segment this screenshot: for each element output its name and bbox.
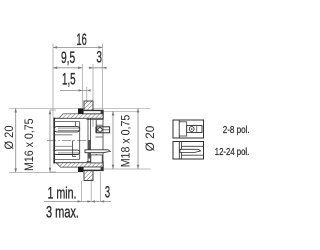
bottom dim line [44, 200, 111, 202]
svg-text:3: 3 [96, 48, 102, 67]
body right face upper [95, 119, 97, 127]
left dim line M16 x50 [49, 110, 51, 172]
insulator edge between pins [79, 122, 81, 160]
extension line x86.8 [86, 87, 88, 101]
icon 1 contact bar [187, 126, 202, 133]
panel nut bar bottom end cap [101, 167, 104, 171]
bore line top [54, 121, 80, 123]
bottom extension x100.3 [99, 172, 101, 201]
flat tab contact (lower right) [85, 150, 110, 153]
dim line 1,5 [60, 89, 87, 91]
panel nut bar bottom thick edge [83, 169, 103, 171]
right dim line O20 x138 [137, 108, 139, 169]
right extension line y169 [104, 168, 151, 170]
svg-text:16: 16 [76, 30, 86, 49]
svg-text:3 max.: 3 max. [46, 204, 79, 222]
O20 extension line bottom (long) [9, 172, 78, 174]
cavity line below pin1 [55, 134, 73, 136]
insulator edge lower [73, 141, 77, 157]
svg-text:1,5: 1,5 [62, 69, 76, 88]
icon 2 divider 1 [178, 142, 180, 160]
bore line bottom [54, 158, 80, 160]
svg-text:12-24 pol.: 12-24 pol. [215, 146, 250, 158]
insulator bar line 1 [87, 118, 89, 163]
insulator upper front edge [75, 122, 77, 127]
right dim line M18 x113 [112, 111, 114, 169]
panel nut bar top end cap [101, 110, 104, 114]
extension line x93 [92, 64, 94, 101]
left dim line O20 x15.7 [15, 108, 17, 172]
tick at top of M16 line [50, 109, 56, 111]
svg-text:3: 3 [105, 184, 110, 202]
module slot line [104, 129, 110, 131]
panel nut bar top [83, 110, 103, 114]
dim line 16 [53, 46, 103, 48]
icon 1 divider [178, 120, 180, 138]
svg-text:Ø 20: Ø 20 [143, 125, 157, 151]
module under line [96, 136, 104, 138]
bottom extension x81.4 [80, 181, 82, 201]
extension line x82.3 [81, 64, 83, 109]
ext x93 segment [92, 120, 94, 127]
icon 1 circle [189, 127, 194, 132]
extension line left x53 [52, 44, 54, 118]
tick at bottom of M16 line [50, 171, 56, 173]
right face upper [102, 110, 104, 119]
pin 1 inner line [58, 127, 80, 129]
svg-text:M16 x 0,75: M16 x 0,75 [22, 118, 36, 171]
svg-text:Ø 20: Ø 20 [2, 125, 16, 149]
panel nut bar bottom [83, 167, 103, 171]
contact module (upper right) [96, 127, 109, 133]
module top step line [96, 124, 103, 126]
panel block top (hatched) [84, 101, 93, 110]
bottom dim arrows [78, 200, 105, 202]
svg-text:1 min.: 1 min. [48, 185, 77, 203]
o-ring top (black) [78, 109, 83, 114]
icon 1 inner box [179, 122, 186, 136]
pin 2 inner line [58, 152, 80, 154]
module dark left edge [95, 127, 97, 133]
lower right body box [91, 155, 102, 163]
shell top line [53, 117, 103, 119]
icon 1 outer box [173, 120, 204, 138]
body step line bottom right [87, 160, 104, 162]
extension line right x102.6 [102, 44, 104, 111]
insulator bar line 2 [90, 118, 92, 163]
shell bottom line [53, 162, 103, 164]
dim line 3 top [89, 67, 107, 69]
right extension line y111.3 [104, 110, 140, 112]
insulator bar dark blob [88, 140, 91, 159]
panel nut bar top thick edge [83, 110, 103, 112]
thread band bottom [56, 163, 103, 167]
icon 1 circle dot [191, 128, 193, 130]
cavity line above pin2 [55, 145, 73, 147]
panel block bottom (hatched) [84, 171, 93, 181]
connector shell left face [53, 118, 55, 164]
icon 1 bar inner line [196, 126, 198, 133]
icon 2 tab contact [180, 149, 201, 152]
contact pin 2 [54, 150, 79, 154]
body right face lower [95, 154, 97, 162]
icon 2 top line [181, 145, 203, 147]
svg-text:9,5: 9,5 [61, 48, 75, 67]
thread band top [59, 114, 103, 118]
right face lower [102, 161, 104, 170]
svg-text:M18 x 0,75: M18 x 0,75 [118, 114, 132, 167]
icon 2 bottom line [181, 154, 203, 156]
o-ring bottom (black) [78, 167, 83, 172]
module crossing line [102, 120, 104, 162]
svg-text:2-8 pol.: 2-8 pol. [223, 124, 250, 136]
centerline [47, 140, 87, 142]
dim line 9,5 [53, 67, 82, 69]
bottom extension x91.2 [90, 181, 92, 201]
O20 extension line top (long) [9, 107, 151, 109]
body step line top right [87, 119, 104, 121]
module diamond [97, 127, 102, 132]
icon 2 outer box [173, 142, 204, 160]
contact pin 1 [54, 126, 79, 131]
icon 2 divider 2 [180, 142, 182, 160]
